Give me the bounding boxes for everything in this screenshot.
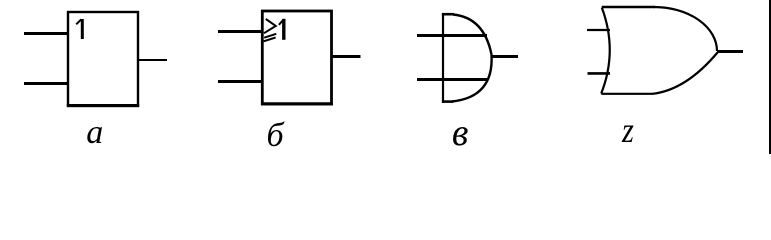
wire: gate v input 2 <box>417 78 487 81</box>
wire: gate a output <box>139 59 167 61</box>
value label ">=" greater-than stroke of gate U2 <box>264 19 276 33</box>
OR gate U1 body bottom edge (thick) <box>67 104 139 107</box>
wire: gate a input 1 <box>24 32 68 35</box>
wire: gate v input 1 <box>417 34 487 37</box>
OR gate U4 (shield shape): top curve to tip <box>654 7 717 51</box>
OR gate U4 (shield shape): top flat edge <box>602 6 655 9</box>
wire: gate b input 2 <box>218 80 262 83</box>
wire: gate b output <box>331 55 361 58</box>
OR gate U4 (shield shape): concave back arc <box>601 8 610 94</box>
border line at right image edge <box>769 0 771 154</box>
value label "1" of gate U2: stem stroke <box>282 19 285 40</box>
AND gate U3 (D-shape): upper arc to tip <box>453 15 492 55</box>
value label "1" of gate U1: flag stroke <box>76 19 81 24</box>
OR gate U2 (IEC rectangle) body <box>262 11 331 104</box>
OR gate U4 (shield shape): bottom flat edge <box>601 93 653 95</box>
wire: gate g input 2 <box>588 72 611 75</box>
AND gate U3 (D-shape): left edge <box>442 13 444 103</box>
OR gate U2 body bottom edge (thick) <box>261 102 333 105</box>
value label ">=" underbar 1 of gate U2 <box>264 34 276 38</box>
wire: gate g output <box>717 50 743 53</box>
OR gate U4 (shield shape): bottom curve to tip <box>653 53 718 94</box>
wire: gate v output <box>492 55 519 58</box>
AND gate U3 (D-shape): bottom edge <box>442 100 453 103</box>
wire: gate g input 1 <box>587 29 610 31</box>
value label ">=" underbar 2 of gate U2 <box>264 38 276 42</box>
svg-text:б: б <box>267 117 286 154</box>
OR gate U1 (IEC rectangle) body <box>68 12 138 106</box>
svg-text:в: в <box>452 112 469 154</box>
wire: gate b input 1 <box>218 30 262 33</box>
AND gate U3 (D-shape): lower arc to tip <box>452 55 492 102</box>
AND gate U3 (D-shape): top edge <box>442 13 454 16</box>
value label "1" of gate U1: stem stroke <box>81 19 84 39</box>
svg-text:z: z <box>621 111 634 151</box>
svg-text:а: а <box>86 114 103 151</box>
wire: gate a input 2 <box>24 82 68 85</box>
value label "1" of gate U2: flag stroke <box>279 20 283 25</box>
